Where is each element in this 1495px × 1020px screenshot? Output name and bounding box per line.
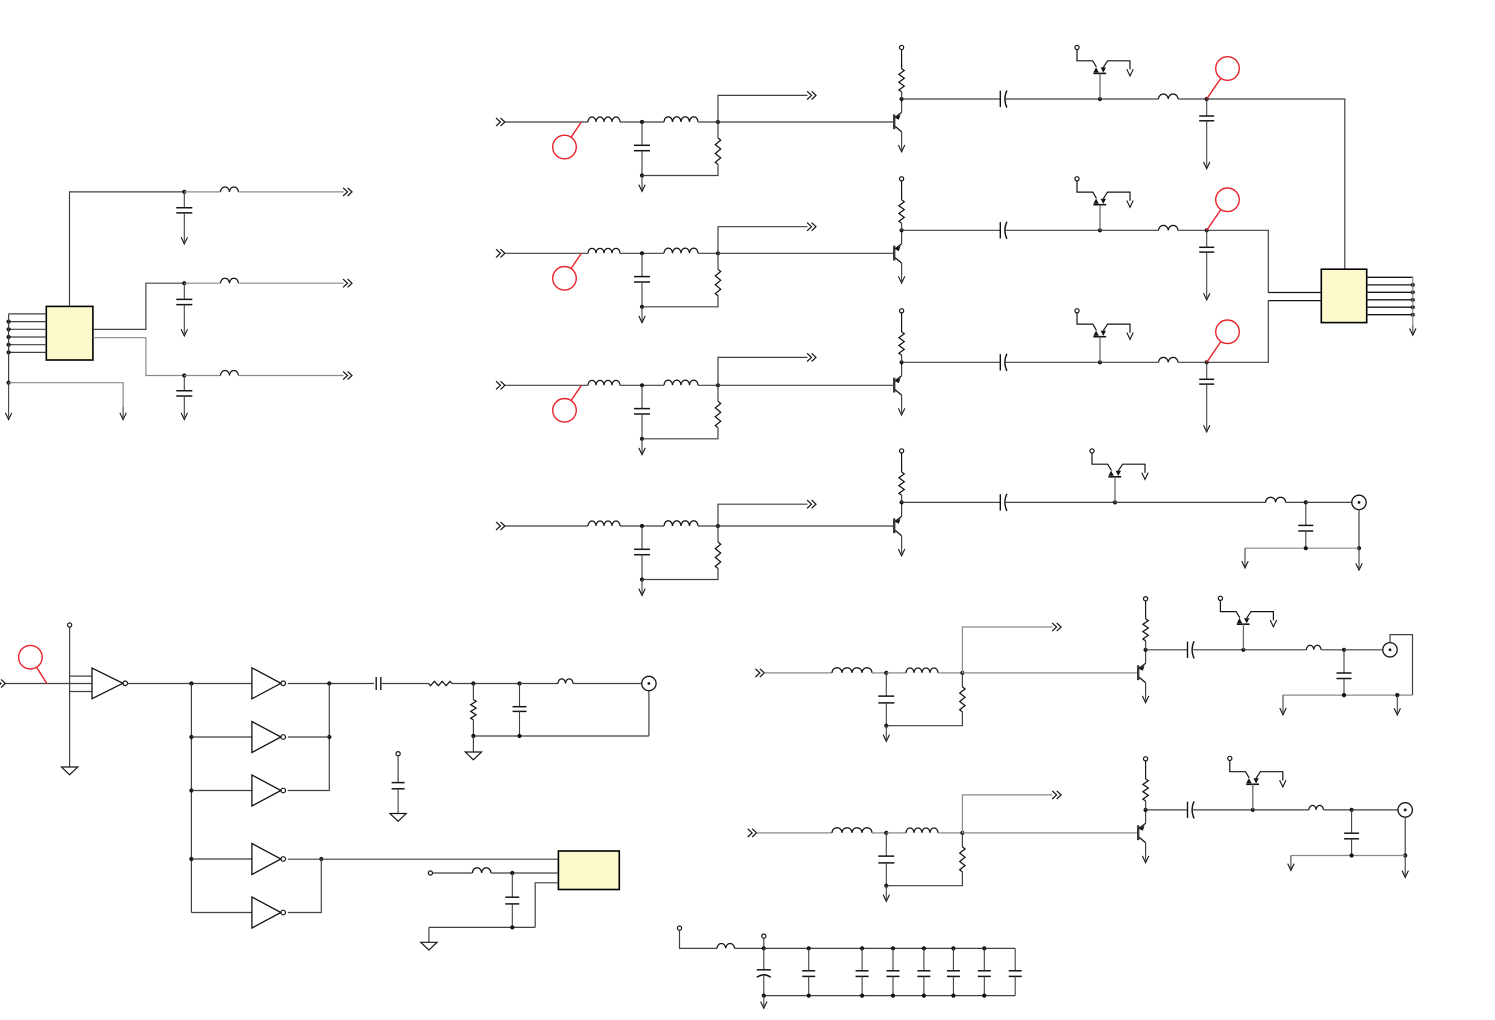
resistor R51 (shunt) lead bbox=[961, 673, 963, 687]
pin (supply) of R62 bbox=[1145, 761, 1147, 779]
node Q5 collector bbox=[1144, 648, 1148, 652]
wire stage 3 stub tap bbox=[718, 357, 808, 385]
resistor R11 bbox=[715, 138, 720, 165]
wire collector rail 6b bbox=[1192, 809, 1253, 811]
ground (Q2 emitter) bbox=[898, 276, 904, 283]
pin (supply) of C73 bbox=[396, 752, 400, 756]
ground (stage 6 filter) bbox=[883, 886, 889, 902]
node C43 ground bbox=[1304, 546, 1308, 550]
wire bus to U4C bbox=[191, 790, 252, 792]
node bank top 5 bbox=[951, 946, 955, 950]
node stage 6 filter 1 bbox=[884, 831, 888, 835]
ground (stage 5 filter) bbox=[883, 726, 889, 742]
off-page connector (stage 5 input) bbox=[755, 669, 764, 677]
wire Q3 emitter bbox=[901, 395, 903, 408]
node filter A junction bbox=[182, 190, 186, 194]
node stage 1 output bbox=[1205, 97, 1209, 101]
wire stage 1 output to U2 top bbox=[1207, 99, 1345, 269]
wire pin stub bbox=[763, 938, 765, 948]
wire L33 to output node 3 bbox=[1178, 361, 1207, 363]
inverter U4A bbox=[252, 668, 286, 699]
wire L81 to bank rail bbox=[735, 947, 764, 949]
ground (stage 1 filter) bbox=[639, 176, 645, 192]
node U2 bus pin 4 bbox=[1411, 298, 1415, 302]
inductor L41 bbox=[588, 521, 620, 526]
wire U2 left pin 2 bbox=[1268, 300, 1321, 302]
ground (stage 4 filter) bbox=[639, 580, 645, 596]
wire U2 right pin 6 bbox=[1367, 314, 1413, 316]
node left bus / ground branch bbox=[7, 381, 11, 385]
node C74 ground bbox=[510, 925, 514, 929]
capacitor C82 bbox=[856, 948, 869, 995]
ground (Q3 emitter) bbox=[898, 408, 904, 415]
wire diode 3 to L33 bbox=[1100, 361, 1159, 363]
wire J1 shield down bbox=[1358, 510, 1360, 549]
wire Q1 emitter bbox=[901, 132, 903, 145]
node stage 4 filter gnd bbox=[640, 577, 644, 581]
node diode 1 bbox=[1098, 97, 1102, 101]
node stage 1 filter 1 bbox=[640, 120, 644, 124]
node left bus pin 3 bbox=[7, 327, 11, 331]
wire diode 4 to L43 bbox=[1115, 501, 1266, 503]
ground (C2) bbox=[181, 323, 187, 337]
wire collector rail 5b bbox=[1192, 649, 1243, 651]
wire bank bottom rail bbox=[764, 995, 1015, 997]
wire stage 6 stub tap bbox=[962, 795, 1052, 833]
wire inverter bus bbox=[190, 684, 192, 913]
wire stage 4 ground rail bbox=[1245, 547, 1359, 549]
capacitor C74 (shunt) bbox=[505, 873, 519, 927]
probe P5 (red, stage 1 input) bbox=[553, 122, 582, 159]
node stage 4 output bbox=[1304, 500, 1308, 504]
capacitor C31 (input shunt) bbox=[634, 385, 650, 439]
capacitor C52 (coupling) bbox=[1188, 641, 1195, 658]
node attenuator 2 bbox=[517, 681, 521, 685]
wire stage 6 ground rail bbox=[1291, 855, 1405, 857]
node diode 5 bbox=[1241, 648, 1245, 652]
capacitor C86 bbox=[978, 948, 991, 995]
resistor R32 (collector pull-up) lead bbox=[901, 355, 903, 362]
node U2 bus pin 6 bbox=[1411, 313, 1415, 317]
connector J3 (coax output) bbox=[1398, 803, 1412, 817]
pin (supply) of R32 bbox=[901, 313, 903, 332]
inductor L32 bbox=[664, 380, 698, 385]
capacitor C21 (input shunt) bbox=[634, 253, 650, 306]
wire C71 to R71 bbox=[381, 683, 429, 685]
wire L51 to node bbox=[872, 672, 886, 674]
wire L62 to node 2 bbox=[938, 832, 962, 834]
ground (U5) bbox=[421, 942, 437, 950]
diode D5 (dual varactor clamp) bbox=[1218, 596, 1276, 650]
wire filter B to L2 bbox=[184, 282, 220, 284]
node stage 5 filter 2 bbox=[960, 671, 964, 675]
wire left ground bus bbox=[8, 314, 10, 383]
capacitor C32 (coupling) bbox=[1000, 354, 1007, 371]
capacitor C63 (output shunt) bbox=[1344, 810, 1359, 856]
wire L42 to node 2 bbox=[698, 525, 718, 527]
ground (C1) bbox=[181, 231, 187, 244]
wire U1 left pin 1 bbox=[9, 313, 47, 315]
node J1 ground bbox=[1357, 546, 1361, 550]
off-page connector (stage 5 tap) bbox=[1052, 623, 1061, 631]
node U5 pin2 filter bbox=[510, 871, 514, 875]
inductor L2 (filter B) bbox=[221, 278, 239, 283]
ground (stage 5 J2) bbox=[1394, 695, 1400, 715]
resistor R22 bbox=[899, 200, 904, 223]
wire collector rail 3a bbox=[902, 361, 1001, 363]
wire diode 2 to L23 bbox=[1100, 229, 1159, 231]
off-page connector (output C) bbox=[343, 371, 352, 379]
wire bank top rail bbox=[764, 947, 1015, 949]
resistor R31 bbox=[715, 401, 720, 428]
resistor R31 (shunt) with leads bbox=[717, 385, 719, 401]
connector J4 (clock output) bbox=[642, 676, 656, 690]
wire collector rail 2a bbox=[902, 229, 1001, 231]
capacitor C13 (output shunt) bbox=[1199, 99, 1214, 162]
resistor R12 (collector pull-up) lead bbox=[901, 92, 903, 99]
pin (supply) of R52 bbox=[1145, 601, 1147, 619]
wire Q5 collector bbox=[1145, 650, 1147, 664]
wire L72 to U5 pin 2 bbox=[491, 872, 559, 874]
inverter U4C bbox=[252, 775, 286, 806]
wire bus to U4B bbox=[191, 736, 252, 738]
node left bus pin 6 bbox=[7, 350, 11, 354]
inductor L1 (filter A) bbox=[221, 187, 239, 192]
wire R51 to gnd rail bbox=[886, 712, 962, 726]
resistor R72 bbox=[471, 700, 476, 720]
node inverter bus 3 bbox=[189, 788, 193, 792]
wire attenuator ground rail bbox=[473, 735, 649, 737]
probe P1 (red) bbox=[1207, 57, 1240, 99]
pin (supply) of R42 bbox=[901, 453, 903, 472]
node stage 3 output bbox=[1205, 360, 1209, 364]
capacitor C62 (coupling) bbox=[1188, 801, 1195, 818]
pin (reference in) of U5 bbox=[428, 871, 432, 875]
wire ground branch bbox=[9, 383, 124, 407]
wire stage 1 stub tap bbox=[718, 95, 808, 122]
resistor R62 (collector pull-up) lead bbox=[1145, 801, 1147, 810]
wire L23 to output node 2 bbox=[1178, 229, 1207, 231]
node bank rail 0 bbox=[762, 946, 766, 950]
off-page connector (output B) bbox=[343, 279, 352, 287]
node stage 3 filter gnd bbox=[640, 437, 644, 441]
resistor R42 bbox=[899, 472, 904, 495]
node Q1 collector bbox=[900, 97, 904, 101]
ground (Q4 emitter) bbox=[898, 549, 904, 556]
wire stage 2 stub tap bbox=[718, 227, 808, 254]
node stage 1 filter 2 bbox=[716, 120, 720, 124]
buffer U3 bbox=[92, 668, 123, 699]
ground (C13) bbox=[1204, 162, 1210, 169]
resistor R11 (shunt) with leads bbox=[717, 122, 719, 138]
wire U4D/U4E output join bbox=[288, 859, 322, 913]
inductor L13 bbox=[1159, 94, 1179, 99]
node Q2 collector bbox=[900, 228, 904, 232]
ground (stage 3 filter) bbox=[639, 439, 645, 455]
resistor R21 bbox=[715, 269, 720, 296]
wire output node 5 to J2 bbox=[1344, 649, 1383, 651]
node attenuator 1 bbox=[471, 681, 475, 685]
node left bus pin 2 bbox=[7, 320, 11, 324]
wire L31 to node bbox=[620, 384, 664, 386]
resistor R52 bbox=[1143, 619, 1148, 641]
ground (C33) bbox=[1204, 425, 1210, 432]
wire output join bus bbox=[288, 684, 330, 791]
ground (branch) bbox=[120, 407, 126, 420]
off-page connector (stage 1 input) bbox=[496, 118, 505, 126]
wire node to L52 bbox=[886, 672, 906, 674]
transistor Q4 bbox=[894, 516, 901, 535]
inductor L52 bbox=[906, 668, 938, 673]
resistor R21 (shunt) with leads bbox=[717, 253, 719, 269]
diode D1 (dual varactor clamp) bbox=[1075, 45, 1133, 99]
wire R31 to gnd rail bbox=[642, 428, 718, 439]
node U2 bus pin 5 bbox=[1411, 305, 1415, 309]
node stage 6 filter 2 bbox=[960, 831, 964, 835]
wire U2 right pin 1 bbox=[1367, 276, 1413, 278]
inductor L33 bbox=[1159, 357, 1179, 362]
wire collector rail 3b bbox=[1005, 361, 1100, 363]
ground (U2 bus) bbox=[1410, 325, 1416, 336]
node bank top 6 bbox=[982, 946, 986, 950]
wire U2 right pin 5 bbox=[1367, 306, 1413, 308]
inductor L12 bbox=[664, 117, 698, 122]
ground (attenuator) bbox=[465, 752, 481, 760]
wire U1 left pin 6 bbox=[9, 351, 47, 353]
capacitor C85 bbox=[947, 948, 960, 995]
wire stage 3 output to U2 pin L2 bbox=[1207, 301, 1269, 363]
node Q6 collector bbox=[1144, 808, 1148, 812]
probe P2 (red) bbox=[1207, 188, 1240, 230]
wire L63 to output node 6 bbox=[1323, 809, 1351, 811]
capacitor C1 (filter A shunt) bbox=[176, 192, 192, 231]
capacitor C80 (bulk, polarized) bbox=[757, 948, 771, 995]
wire U2 right pin 2 bbox=[1367, 284, 1413, 286]
node bank top 2 bbox=[860, 946, 864, 950]
wire R71 to node bbox=[452, 683, 473, 685]
transistor Q5 bbox=[1138, 663, 1145, 682]
diode D2 (dual varactor clamp) bbox=[1075, 177, 1133, 231]
capacitor C22 (coupling) bbox=[1000, 222, 1007, 239]
connector J2 (coax output) bbox=[1383, 643, 1397, 657]
wire stage 4 to base bbox=[718, 525, 893, 527]
wire U1 left pin 2 bbox=[9, 321, 47, 323]
node bank bottom 2 bbox=[860, 994, 864, 998]
wire R21 to gnd rail bbox=[642, 296, 718, 307]
node bank top 3 bbox=[891, 946, 895, 950]
pin (supply input) of bank bbox=[677, 926, 681, 930]
node bank bottom 4 bbox=[922, 994, 926, 998]
wire U1 left pin 4 bbox=[9, 336, 47, 338]
ground (stage 5 left) bbox=[1280, 695, 1286, 715]
wire U2 left pin 1 bbox=[1268, 292, 1321, 294]
node stage 2 filter 2 bbox=[716, 251, 720, 255]
wire stage 1 input bbox=[505, 121, 588, 123]
inductor L42 bbox=[664, 521, 698, 526]
pin (supply) of R22 bbox=[901, 181, 903, 200]
wire stage 1 to base bbox=[718, 121, 893, 123]
node stage 5 output bbox=[1342, 648, 1346, 652]
ground (C23) bbox=[1204, 293, 1210, 300]
wire gnd rail stub 2 bbox=[428, 927, 430, 942]
off-page connector (stage 2 input) bbox=[496, 249, 505, 257]
wire stage 5 ground rail bbox=[1283, 694, 1413, 696]
node stage 1 filter gnd bbox=[640, 173, 644, 177]
node stage 4 filter 2 bbox=[716, 524, 720, 528]
node stage 2 output bbox=[1205, 228, 1209, 232]
wire stage 3 input bbox=[505, 384, 588, 386]
capacitor C11 (input shunt) bbox=[634, 122, 650, 176]
node inverter bus 2 bbox=[189, 735, 193, 739]
wire bus to U4E bbox=[191, 912, 252, 914]
wire diode 1 to L13 bbox=[1100, 98, 1159, 100]
transistor Q1 bbox=[894, 112, 901, 131]
diode D3 (dual varactor clamp) bbox=[1075, 309, 1133, 363]
node left bus pin 4 bbox=[7, 335, 11, 339]
wire Q4 emitter bbox=[901, 536, 903, 549]
probe P6 (red, stage 2 input) bbox=[553, 253, 582, 290]
node C63 ground bbox=[1350, 853, 1354, 857]
node filter C junction bbox=[182, 373, 186, 377]
wire buffer gnd stub bbox=[70, 691, 92, 693]
wire filter C to L3 bbox=[184, 375, 220, 377]
capacitor C12 (coupling) bbox=[1000, 90, 1007, 107]
inductor L31 bbox=[588, 380, 620, 385]
wire L1 to output A bbox=[238, 191, 343, 193]
capacitor C53 (output shunt) bbox=[1337, 650, 1352, 695]
resistor R42 (collector pull-up) lead bbox=[901, 495, 903, 502]
capacitor C81 bbox=[802, 948, 815, 995]
node bank top 1 bbox=[807, 946, 811, 950]
transistor Q2 bbox=[894, 244, 901, 263]
node diode 2 bbox=[1098, 228, 1102, 232]
resistor R71 (series) bbox=[429, 681, 453, 685]
node R72 ground bbox=[471, 734, 475, 738]
wire collector rail 2b bbox=[1005, 229, 1100, 231]
capacitor C33 (output shunt) bbox=[1199, 362, 1214, 425]
capacitor C84 bbox=[917, 948, 930, 995]
node U4A/U4B output join bbox=[327, 681, 331, 685]
wire stage 6 to base bbox=[962, 832, 1137, 834]
node U2 bus pin 2 bbox=[1411, 283, 1415, 287]
ground (Q1 emitter) bbox=[898, 145, 904, 152]
wire stage 4 input bbox=[505, 525, 588, 527]
ground (stage 4 J1) bbox=[1356, 548, 1362, 570]
resistor R32 bbox=[899, 332, 904, 355]
wire U1 pin R1 to filter B bbox=[93, 283, 184, 329]
node bank bottom 6 bbox=[982, 994, 986, 998]
IC U5 (PLL) bbox=[558, 851, 619, 890]
inductor L21 bbox=[588, 248, 620, 253]
node stage 5 filter 1 bbox=[884, 671, 888, 675]
wire J2 shield loop bbox=[1390, 635, 1413, 696]
node stage 3 filter 2 bbox=[716, 383, 720, 387]
wire node to L62 bbox=[886, 832, 906, 834]
inductor L23 bbox=[1159, 225, 1179, 230]
wire L11 to node bbox=[620, 121, 664, 123]
ground (bank) bbox=[761, 996, 767, 1009]
ground (stage 4 left) bbox=[1242, 548, 1248, 568]
node bank bottom 5 bbox=[951, 994, 955, 998]
wire L32 to node 2 bbox=[698, 384, 718, 386]
wire pin to L72 bbox=[433, 872, 473, 874]
node stage 6 filter gnd bbox=[884, 884, 888, 888]
wire J4 shield down bbox=[648, 691, 650, 736]
capacitor C61 (input shunt) bbox=[878, 833, 894, 886]
wire collector rail 4b bbox=[1005, 501, 1115, 503]
wire U1 pin R2 to filter C bbox=[93, 338, 184, 376]
node bank bottom 0 bbox=[762, 994, 766, 998]
off-page connector (buffer input) bbox=[0, 679, 5, 687]
pin (supply) of buffer U3 bbox=[68, 623, 72, 627]
connector J1 (coax output) bbox=[1352, 495, 1366, 509]
ground (left bus) bbox=[5, 383, 11, 420]
wire stage 2 input bbox=[505, 252, 588, 254]
probe P3 (red) bbox=[1207, 320, 1240, 362]
off-page connector (stage 6 tap) bbox=[1052, 791, 1061, 799]
capacitor C87 (end) bbox=[1009, 948, 1022, 995]
node inverter bus top bbox=[189, 681, 193, 685]
resistor R72 (shunt) lead bbox=[472, 684, 474, 700]
wire collector rail 5a bbox=[1146, 649, 1188, 651]
wire buffer power rail bbox=[69, 627, 71, 767]
wire U1 left pin 5 bbox=[9, 344, 47, 346]
wire diode 5 to L53 bbox=[1243, 649, 1306, 651]
wire output node 6 to J3 bbox=[1352, 809, 1398, 811]
wire U1 left pin 3 bbox=[9, 328, 47, 330]
node Q4 collector bbox=[900, 500, 904, 504]
resistor R41 (shunt) with leads bbox=[717, 526, 719, 542]
ground (stage 6 left) bbox=[1288, 856, 1294, 871]
wire collector rail 6a bbox=[1146, 809, 1188, 811]
wire L13 to output node 1 bbox=[1178, 98, 1207, 100]
resistor R62 bbox=[1143, 779, 1148, 801]
wire L71 to J4 bbox=[573, 683, 642, 685]
ground (Q6 emitter) bbox=[1142, 855, 1148, 862]
node stage 3 filter 1 bbox=[640, 383, 644, 387]
wire U5 pin 3 to ground bbox=[535, 883, 558, 928]
ground (Q5 emitter) bbox=[1142, 695, 1148, 702]
node bank bottom 1 bbox=[807, 994, 811, 998]
node U2 bus pin 3 bbox=[1411, 290, 1415, 294]
node stage 2 filter 1 bbox=[640, 251, 644, 255]
wire L22 to node 2 bbox=[698, 252, 718, 254]
inductor L53 bbox=[1307, 645, 1322, 650]
node left bus pin 5 bbox=[7, 343, 11, 347]
capacitor C42 (coupling) bbox=[1000, 494, 1007, 511]
node stage 2 filter gnd bbox=[640, 305, 644, 309]
IC U2 (divider) bbox=[1321, 269, 1366, 322]
wire L3 to output C bbox=[238, 375, 343, 377]
ground (buffer U3) bbox=[62, 767, 78, 775]
diode D6 (dual varactor clamp) bbox=[1228, 756, 1286, 810]
wire Q4 collector bbox=[901, 502, 903, 516]
ground (stage 2 filter) bbox=[639, 307, 645, 323]
wire collector rail 4a bbox=[902, 501, 1001, 503]
off-page connector (output A) bbox=[343, 188, 352, 196]
probe P4 (red) bbox=[19, 645, 47, 683]
wire Q1 collector bbox=[901, 99, 903, 112]
wire R61 to gnd rail bbox=[886, 872, 962, 886]
wire L53 to output node 5 bbox=[1321, 649, 1344, 651]
resistor R12 bbox=[899, 69, 904, 92]
wire U4A output bbox=[288, 683, 374, 685]
wire R11 to gnd rail bbox=[642, 165, 718, 176]
wire stage 3 to base bbox=[718, 384, 893, 386]
wire L41 to node bbox=[620, 525, 664, 527]
transistor Q3 bbox=[894, 376, 901, 395]
wire collector rail 1b bbox=[1005, 98, 1100, 100]
